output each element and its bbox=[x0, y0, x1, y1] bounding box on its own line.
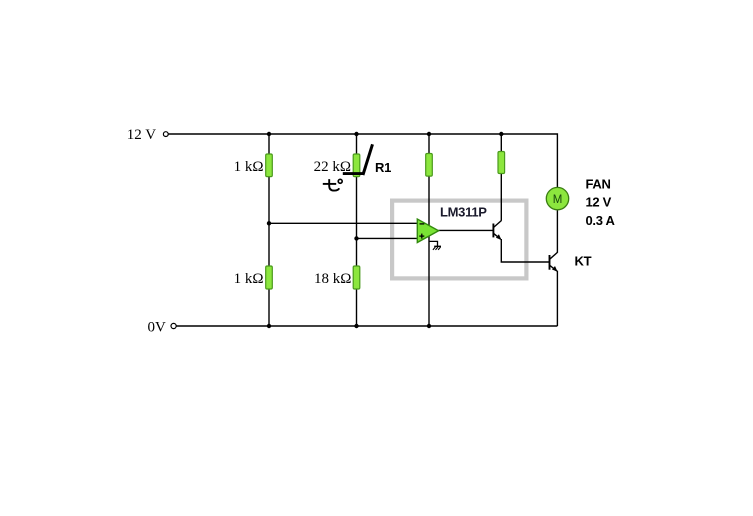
transistor Q1 collector stroke bbox=[494, 221, 502, 228]
svg-text:12 V: 12 V bbox=[127, 127, 156, 143]
transistor KT base bar bbox=[549, 255, 551, 270]
wire bottom rail 0V bbox=[177, 325, 558, 327]
transistor KT collector stroke bbox=[550, 252, 558, 259]
op-amp plus sign bbox=[419, 234, 424, 239]
ground symbol (LM311 GND pin) bbox=[429, 241, 441, 250]
wire column 1 divider bbox=[268, 134, 270, 326]
wire top rail 12V down to motor bbox=[169, 134, 558, 188]
wire KT emitter to 0V rail bbox=[556, 271, 558, 326]
resistor 1 kOhm lower bbox=[266, 266, 273, 289]
wire column 4 pull-up to Q1 collector bbox=[500, 134, 502, 221]
thermistor stroke R1 bbox=[343, 144, 373, 175]
terminal 12 V bbox=[163, 132, 168, 137]
junction bottom rail col1 bbox=[267, 324, 271, 328]
junction bottom rail col3 bbox=[427, 324, 431, 328]
op-amp minus sign bbox=[420, 223, 425, 225]
wire comparator output to Q1 base bbox=[438, 229, 493, 231]
svg-text:22 kΩ: 22 kΩ bbox=[314, 159, 351, 175]
IC box LM311P outline bbox=[392, 201, 526, 279]
wire column 3 comparator ground branch bbox=[428, 134, 430, 326]
resistor 18 kOhm bbox=[353, 266, 360, 289]
svg-text:12 V: 12 V bbox=[586, 195, 612, 210]
svg-text:18 kΩ: 18 kΩ bbox=[314, 271, 351, 287]
wire inverting input bbox=[269, 222, 417, 224]
svg-text:1 kΩ: 1 kΩ bbox=[234, 159, 264, 175]
transistor Q1 emitter stroke with arrow bbox=[494, 233, 502, 240]
junction top rail col1 bbox=[267, 132, 271, 136]
resistor 1 kOhm upper bbox=[266, 154, 273, 177]
transistor Q1 (inside LM311) base bar bbox=[492, 224, 494, 238]
svg-text:KT: KT bbox=[575, 253, 592, 268]
motor M (fan) bbox=[546, 187, 568, 209]
junction top rail col4 bbox=[499, 132, 503, 136]
wire column 2 thermistor branch bbox=[356, 134, 358, 326]
wire Q1 emitter to KT base bbox=[501, 239, 549, 262]
op-amp comparator LM311 triangle bbox=[417, 219, 438, 243]
svg-text:0.3 A: 0.3 A bbox=[586, 213, 616, 228]
svg-text:LM311P: LM311P bbox=[440, 205, 487, 220]
terminal 0V bbox=[171, 323, 176, 328]
svg-text:0V: 0V bbox=[148, 320, 167, 336]
resistor 22 kOhm thermistor body R1 bbox=[353, 154, 360, 177]
junction bottom rail col2 bbox=[354, 324, 358, 328]
svg-text:R1: R1 bbox=[375, 160, 391, 175]
junction non-inverting tap bbox=[354, 236, 358, 240]
resistor column 3 pull-up bbox=[426, 154, 433, 177]
wire non-inverting input bbox=[357, 237, 418, 239]
resistor column 4 pull-up bbox=[498, 152, 505, 174]
wire KT collector to motor bbox=[556, 210, 558, 253]
transistor KT emitter stroke with arrow bbox=[550, 265, 558, 272]
junction inverting tap bbox=[267, 221, 271, 225]
svg-text:1 kΩ: 1 kΩ bbox=[234, 271, 264, 287]
junction top rail col3 bbox=[427, 132, 431, 136]
junction top rail col2 bbox=[354, 132, 358, 136]
svg-text:FAN: FAN bbox=[586, 176, 611, 191]
svg-text:M: M bbox=[553, 194, 563, 206]
temperature symbol t-degree bbox=[323, 179, 342, 191]
